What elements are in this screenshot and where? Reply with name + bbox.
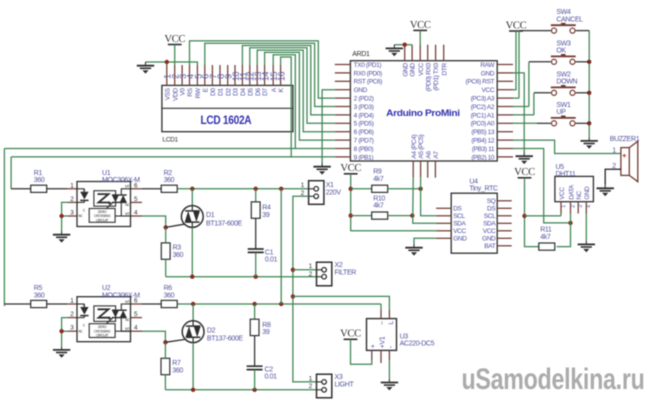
wire U2 pin4 to gate node [142, 331, 165, 342]
wire U3 +V to VCC [351, 339, 372, 364]
triac D2 [182, 321, 204, 343]
svg-text:GND: GND [584, 186, 591, 200]
junction R9-A5 [418, 187, 422, 191]
wire switch common to ground [588, 31, 590, 138]
junction C1 bottom [254, 275, 258, 279]
U4 left pin names [453, 206, 467, 243]
ground (U4) [405, 244, 422, 256]
wire C2 to bottom line [254, 370, 256, 390]
wire mains live line 1 [177, 188, 308, 190]
svg-text:DATA: DATA [568, 184, 575, 200]
svg-text:MOC306X-M: MOC306X-M [102, 292, 140, 299]
svg-text:CIRCUIT: CIRCUIT [96, 218, 109, 222]
U4 right pin names [482, 198, 496, 250]
wire VCC stem to R11 [525, 178, 539, 247]
wire U1 pin6 to R2 [142, 188, 161, 190]
junction live drop [279, 187, 283, 191]
resistor R3 [161, 243, 170, 259]
svg-text:R10: R10 [373, 195, 385, 202]
wire R7 to bottom line [164, 375, 166, 390]
wire LCD pin to ARD1 (bundle 2) [205, 43, 335, 106]
IC U4 Tiny_RTC body [451, 193, 497, 253]
resistor R1 [31, 185, 47, 192]
wire D2 bottom [192, 343, 194, 390]
wire to DHT VCC pin [525, 215, 562, 217]
svg-text:VCC: VCC [483, 228, 496, 235]
svg-text:NC: NC [576, 190, 583, 199]
junction VCC-R10 [349, 213, 353, 217]
svg-text:360: 360 [164, 177, 175, 184]
resistor R7 [161, 358, 170, 374]
wire LCD pin to ARD1 (bundle 6) [265, 52, 335, 140]
ARD1 right pin stubs [497, 65, 513, 157]
svg-text:TX0 (PD1): TX0 (PD1) [354, 62, 382, 69]
resistor R8 [250, 319, 259, 335]
svg-text:GND: GND [410, 63, 417, 77]
svg-text:GND: GND [453, 236, 467, 243]
wire VCC stem to U4 VCC [351, 174, 436, 231]
junction VCC-R9 [349, 187, 353, 191]
svg-text:CIRCUIT: CIRCUIT [96, 334, 109, 338]
svg-text:VCC: VCC [514, 167, 535, 178]
wire buzzer pin2 to ground [605, 169, 621, 184]
switch SW1 [551, 116, 576, 126]
svg-text:4k7: 4k7 [373, 176, 384, 183]
wire U4 GND to ground [414, 238, 436, 244]
svg-text:6 (PD6): 6 (PD6) [354, 129, 374, 136]
wire PB0 drop to R5 [4, 303, 30, 305]
svg-text:(PB2) 10: (PB2) 10 [471, 154, 495, 161]
junction R10-A4 [410, 213, 414, 217]
svg-text:DOWN: DOWN [556, 79, 577, 86]
junction X2 pin1 tap [291, 268, 295, 272]
optocoupler U2 MOC306X-M [77, 297, 131, 342]
buzzer BUZZER1 [621, 141, 638, 181]
wire PB1 drop to R1 [11, 188, 31, 190]
wire net PB1 row [11, 156, 335, 158]
svg-text:A5 (PC5): A5 (PC5) [418, 134, 425, 158]
power VCC (ARD1 right) [506, 20, 527, 31]
svg-text:39: 39 [262, 212, 270, 219]
svg-text:GND: GND [481, 70, 495, 77]
svg-text:4 (PD4): 4 (PD4) [354, 112, 374, 119]
junction U2 pin3 [59, 329, 63, 333]
svg-text:(PD1) TX0: (PD1) TX0 [433, 62, 440, 90]
U5 pin numbers [561, 205, 592, 208]
ground (LCD VSS/RW) [137, 62, 154, 74]
ground (ARD1 GND left) [313, 163, 330, 175]
wire SW4 right [576, 30, 590, 32]
svg-text:BT137-600E: BT137-600E [207, 336, 243, 343]
U3 pin marks [370, 321, 395, 349]
svg-text:R2: R2 [164, 170, 173, 177]
wire X1 pin2 down (neutral) [293, 196, 317, 382]
wire R4 top [255, 189, 257, 202]
wire A5 to U4 SCL [421, 178, 437, 216]
svg-text:R3: R3 [173, 245, 182, 252]
svg-text:GND: GND [354, 87, 368, 94]
svg-text:RX0 (PD0): RX0 (PD0) [354, 70, 382, 77]
svg-text:D5: D5 [247, 88, 254, 96]
wire R9 left [351, 188, 372, 190]
junction D2 gate [163, 340, 167, 344]
wire ARD1 GND pin to ground [322, 90, 335, 163]
IC U5 DHT11 body [555, 176, 594, 201]
ARD1 bottom pin stubs [413, 161, 435, 178]
resistor R9 [372, 185, 388, 192]
junction DHT DATA [568, 221, 572, 225]
wire load return line 1 [166, 276, 317, 278]
svg-text:LCD 1602A: LCD 1602A [201, 113, 252, 127]
svg-text:+: + [370, 344, 377, 348]
wire SW2 right [576, 92, 590, 94]
ground (right of ARD1) [516, 153, 533, 165]
power VCC (LCD VDD) [164, 34, 185, 45]
junction SW1 common [587, 121, 591, 125]
wire R10 right to A4 [388, 215, 413, 217]
junction DHT VCC [522, 214, 526, 218]
svg-text:X3: X3 [335, 374, 343, 381]
svg-text:C2: C2 [265, 367, 274, 374]
svg-text:BT137-600E: BT137-600E [206, 220, 242, 227]
svg-text:VCC: VCC [410, 20, 431, 31]
junction U3 tap [291, 294, 295, 298]
U5 pin stubs [561, 202, 586, 214]
svg-text:VCC: VCC [559, 187, 566, 200]
svg-text:UP: UP [556, 109, 566, 116]
wire U2 pin2/3 to ground [62, 318, 68, 332]
ground (switches) [581, 137, 598, 149]
wire R3 to bottom line [165, 259, 167, 276]
svg-text:VCC: VCC [340, 163, 361, 174]
svg-text:SDA: SDA [453, 221, 466, 228]
svg-text:360: 360 [164, 292, 175, 299]
ground (ARD1 top) [386, 45, 403, 57]
wire left edge to R5 [3, 149, 5, 307]
svg-text:R5: R5 [34, 285, 43, 292]
svg-text:(PD0) RX0: (PD0) RX0 [425, 62, 432, 91]
svg-text:RS: RS [187, 87, 194, 96]
svg-text:VSS: VSS [164, 87, 171, 100]
U1 pin stubs [68, 189, 142, 216]
svg-text:(PB3) 11: (PB3) 11 [472, 146, 495, 153]
junction D2 bottom [191, 388, 195, 392]
wire R5 to U2 pin1 [47, 303, 68, 305]
svg-text:U1: U1 [102, 170, 111, 177]
svg-text:SW1: SW1 [556, 102, 571, 109]
wire LCD A riser [273, 55, 295, 149]
svg-text:RST (PC6): RST (PC6) [354, 79, 383, 86]
wire ARD1 top GND link [394, 44, 412, 46]
svg-text:R4: R4 [262, 205, 271, 212]
svg-text:4k7: 4k7 [373, 203, 384, 210]
IC U3 AC220-DC5 body [367, 319, 397, 351]
ARD1 top pin stubs [405, 45, 444, 61]
switch SW3 [551, 54, 576, 64]
wire left edge to R1 [10, 157, 12, 189]
wire A4 to U4 SDA [413, 178, 436, 224]
optocoupler U1 MOC306X-M [77, 182, 131, 227]
svg-text:0.01: 0.01 [265, 257, 278, 264]
svg-text:SQ: SQ [487, 198, 496, 205]
svg-text:D7: D7 [262, 88, 269, 96]
switch SW2 [551, 85, 576, 95]
svg-text:~: ~ [377, 321, 386, 325]
svg-text:(PC6) RST: (PC6) RST [466, 79, 495, 86]
wire D1 top [191, 189, 193, 206]
display module LCD1 body [162, 85, 293, 131]
wire ARD1 pin12 to buzzer [513, 140, 621, 153]
U2 pin numbers [70, 298, 138, 332]
svg-text:U4: U4 [469, 178, 478, 185]
svg-text:GND: GND [402, 63, 409, 77]
wire SW1 right [576, 122, 590, 124]
svg-text:SW4: SW4 [556, 9, 571, 16]
svg-text:LIGHT: LIGHT [335, 381, 355, 388]
svg-text:U3: U3 [400, 333, 409, 340]
wire neutral to U3 input [293, 296, 390, 310]
junction SW2 common [587, 91, 591, 95]
capacitor C2 [247, 366, 263, 369]
junction ARD1 GND pins [403, 43, 407, 47]
svg-text:Arduino ProMini: Arduino ProMini [386, 107, 460, 118]
svg-text:BAT: BAT [484, 243, 495, 250]
svg-text:A4 (PC4): A4 (PC4) [411, 134, 418, 158]
ground (U1 input) [53, 231, 70, 243]
svg-text:U5: U5 [556, 164, 565, 171]
U5 pin names [559, 184, 591, 200]
svg-text:ARD1: ARD1 [352, 51, 370, 58]
svg-text:AC220-DC5: AC220-DC5 [400, 341, 435, 348]
wire ARD1 pin11 to DHT DATA [513, 149, 571, 223]
U3 bottom pin stubs [371, 350, 373, 360]
svg-text:VCC: VCC [506, 20, 527, 31]
U1 pin numbers [70, 182, 138, 216]
power VCC (ARD1 top) [410, 20, 431, 31]
wire live drop between channels [280, 189, 282, 304]
svg-text:360: 360 [34, 177, 45, 184]
ARD1 left pin names [354, 62, 383, 161]
wire LCD K riser [281, 57, 292, 157]
svg-text:4: 4 [586, 205, 592, 208]
junction SW3 common [587, 60, 591, 64]
svg-text:MT: MT [125, 185, 129, 189]
wire D2 gate [165, 339, 185, 342]
svg-text:+V1: +V1 [379, 336, 386, 348]
svg-text:VCC: VCC [453, 228, 466, 235]
svg-text:(PB5) 13: (PB5) 13 [471, 129, 495, 136]
svg-text:U2: U2 [102, 285, 111, 292]
svg-text:(PC0) A0: (PC0) A0 [471, 121, 495, 128]
wire gate to R7 [164, 342, 166, 358]
junction C2 bottom [252, 388, 256, 392]
svg-text:(PC3) A3: (PC3) A3 [471, 96, 495, 103]
wire SW3 right [576, 61, 590, 63]
svg-text:Tiny_RTC: Tiny_RTC [469, 185, 498, 192]
ground (U2 input) [53, 346, 70, 358]
connector X3 LIGHT [317, 374, 332, 398]
svg-text:220V: 220V [326, 189, 342, 196]
svg-text:LCD1: LCD1 [162, 136, 178, 143]
svg-text:D2: D2 [207, 327, 216, 334]
wire SW1 to ARD1 [537, 122, 551, 124]
ARD1 right pin names [466, 62, 496, 161]
U3 top pin stubs [380, 310, 382, 319]
wire LCD pin to ARD1 (bundle 1) [190, 41, 335, 98]
svg-text:RAW: RAW [480, 62, 495, 69]
svg-text:1: 1 [561, 205, 567, 208]
U4 left pin stubs [436, 208, 451, 238]
wire R1 to U1 pin1 [47, 188, 68, 190]
svg-text:D1: D1 [218, 88, 225, 96]
wire SW3 to ARD1 [529, 61, 551, 63]
triac D1 [181, 206, 203, 228]
wire R8 to C2 [254, 336, 256, 367]
svg-text:MOC306X-M: MOC306X-M [102, 177, 140, 184]
LCD pin names VSS..K [164, 87, 285, 101]
ground (DHT11) [578, 241, 595, 253]
ARD1 left pin stubs [335, 65, 351, 157]
svg-text:SCL: SCL [484, 213, 496, 220]
svg-text:A6: A6 [425, 151, 432, 159]
svg-text:RW: RW [195, 87, 202, 98]
wire GND pin right to ground [513, 73, 524, 153]
svg-text:MT: MT [125, 212, 129, 216]
svg-text:2: 2 [571, 205, 577, 208]
wire R4 to C1 [255, 218, 257, 249]
wire DATA down to R11 [557, 214, 571, 247]
resistor R11 [539, 243, 555, 250]
svg-text:X2: X2 [335, 262, 343, 269]
svg-text:D2: D2 [225, 88, 232, 96]
wire R8 top [254, 304, 256, 319]
wire LCD ground line [146, 62, 198, 65]
svg-text:R7: R7 [172, 360, 181, 367]
wire VCC to ARD1 VCC pin [419, 30, 421, 46]
LCD pin stubs 1-16 [167, 65, 281, 85]
svg-text:(PC1) A1: (PC1) A1 [471, 112, 495, 119]
svg-text:360: 360 [34, 292, 45, 299]
svg-text:3: 3 [578, 205, 584, 208]
wire VCC right to VCC pin [513, 31, 516, 90]
svg-text:D0: D0 [210, 88, 217, 96]
wire LCD pin to ARD1 (bundle 4) [250, 48, 335, 124]
svg-text:A7: A7 [433, 151, 440, 159]
wire U2 pin6 to R6 [142, 303, 161, 305]
resistor R5 [31, 300, 47, 307]
wire net PB0 row [4, 148, 334, 150]
junction R8 top [252, 302, 256, 306]
wire U1 pin2/3 to ground [62, 202, 68, 216]
ARD1 bottom pin names [411, 134, 440, 158]
wire D2 top [192, 304, 194, 321]
svg-text:C1: C1 [265, 249, 274, 256]
svg-text:VCC: VCC [340, 329, 361, 340]
junction live drop 2 [279, 302, 283, 306]
ARD1 top pin names [402, 62, 448, 91]
svg-text:D4: D4 [240, 88, 247, 96]
wire load return line 2 [165, 389, 316, 391]
wire mains live line 2 [177, 303, 381, 305]
svg-text:GND: GND [482, 236, 496, 243]
junction U1 pin3 [59, 214, 63, 218]
svg-text:9 (PB1): 9 (PB1) [354, 154, 374, 161]
junction D1 bottom [190, 275, 194, 279]
svg-text:D1: D1 [206, 212, 215, 219]
svg-text:D3: D3 [233, 88, 240, 96]
ground (buzzer) [597, 185, 614, 197]
junction R4 top [254, 187, 258, 191]
svg-text:8 (PB0): 8 (PB0) [354, 146, 374, 153]
svg-text:(PC2) A2: (PC2) A2 [471, 104, 495, 111]
svg-text:BUZZER1: BUZZER1 [610, 136, 640, 143]
connector X2 FILTER [317, 262, 332, 286]
U2 pin stubs [68, 304, 142, 331]
svg-text:VCC: VCC [418, 63, 425, 76]
svg-text:DS: DS [487, 206, 496, 213]
svg-text:16: 16 [277, 72, 287, 82]
wire neutral to X2 pin1 [293, 269, 317, 271]
wire D1 bottom [191, 227, 193, 276]
junction VSS-gnd [165, 60, 169, 64]
svg-text:360: 360 [173, 252, 184, 259]
ground (U3) [381, 379, 398, 391]
junction D1 gate [164, 225, 168, 229]
svg-text:CANCEL: CANCEL [556, 16, 583, 23]
svg-text:SDA: SDA [483, 221, 496, 228]
resistor R6 [161, 300, 177, 307]
svg-text:39: 39 [262, 329, 270, 336]
wire D1 gate [166, 224, 185, 227]
wire DHT GND to ground [585, 214, 587, 241]
resistor R2 [161, 185, 177, 192]
svg-text:SW2: SW2 [556, 71, 571, 78]
junction D2 top [191, 302, 195, 306]
svg-text:R1: R1 [34, 170, 43, 177]
wire C1 to bottom line [255, 252, 257, 276]
svg-text:MT: MT [125, 327, 129, 331]
U4 right pin stubs [497, 201, 512, 246]
resistor R4 [251, 202, 260, 218]
power VCC (R9/R10) [340, 163, 361, 174]
svg-text:VCC: VCC [482, 87, 495, 94]
svg-text:DS: DS [453, 206, 462, 213]
svg-text:VDD: VDD [172, 88, 179, 101]
svg-text:uSamodelkina.ru: uSamodelkina.ru [462, 363, 645, 396]
power VCC (U3 output) [340, 329, 361, 340]
svg-text:5 (PD5): 5 (PD5) [354, 121, 374, 128]
wire R9 right to A5 [388, 188, 421, 190]
wire SW4 to ARD1 [519, 30, 551, 32]
svg-text:FILTER: FILTER [335, 269, 357, 276]
wire U1 pin4 to gate node [142, 216, 166, 227]
svg-text:MT: MT [125, 300, 129, 304]
svg-text:SW3: SW3 [556, 40, 571, 47]
svg-text:3 (PD3): 3 (PD3) [354, 104, 374, 111]
wire SW2 to ARD1 [534, 92, 551, 94]
capacitor C1 [248, 249, 264, 252]
svg-text:R11: R11 [540, 227, 552, 234]
svg-text:R6: R6 [164, 285, 173, 292]
power VCC (DHT11) [514, 167, 535, 178]
junction D1 top [190, 187, 194, 191]
svg-text:DHT11: DHT11 [556, 171, 576, 178]
svg-text:OK: OK [556, 48, 566, 55]
svg-text:D6: D6 [255, 88, 262, 96]
svg-text:R8: R8 [262, 322, 271, 329]
svg-text:7 (PD7): 7 (PD7) [354, 138, 374, 145]
wire LCD pin to ARD1 (bundle 3) [242, 46, 334, 115]
